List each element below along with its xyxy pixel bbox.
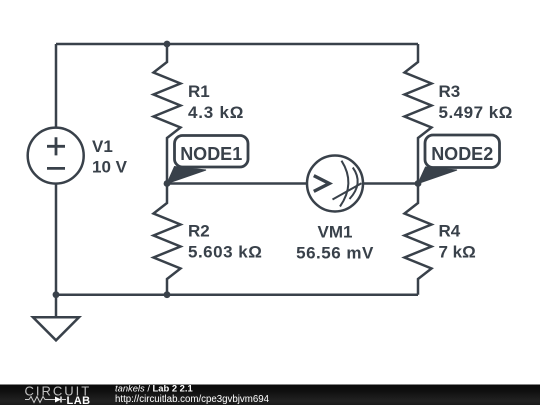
svg-text:56.56 mV: 56.56 mV (296, 244, 374, 263)
svg-text:R1: R1 (188, 82, 210, 101)
svg-text:5.603 kΩ: 5.603 kΩ (188, 243, 262, 262)
svg-text:R2: R2 (188, 222, 210, 241)
footer title text (115, 383, 270, 405)
svg-text:NODE2: NODE2 (431, 144, 493, 164)
wire top rail (56, 43, 418, 46)
svg-text:R3: R3 (439, 82, 461, 101)
resistor R2 (154, 184, 263, 295)
svg-text:7 kΩ: 7 kΩ (439, 243, 476, 262)
junction node A (NODE1) (164, 180, 171, 187)
junction bottom mid (164, 291, 171, 298)
svg-text:tankels / Lab 2 2.1: tankels / Lab 2 2.1 (115, 383, 193, 394)
svg-text:V1: V1 (92, 137, 113, 156)
junction node B (NODE2) (415, 180, 422, 187)
svg-text:R4: R4 (439, 222, 461, 241)
svg-text:NODE1: NODE1 (180, 144, 242, 164)
svg-text:VM1: VM1 (318, 223, 353, 242)
svg-text:10 V: 10 V (92, 158, 128, 177)
ground (33, 295, 79, 341)
resistor R1 (154, 44, 245, 184)
svg-text:http://circuitlab.com/cpe3gvbj: http://circuitlab.com/cpe3gvbjvm694 (115, 394, 270, 405)
voltage source V1 (28, 128, 128, 184)
footer bar (0, 385, 540, 405)
wire bottom rail (56, 293, 418, 296)
wire middle rail (167, 182, 418, 185)
wire left rail (55, 44, 58, 295)
voltmeter VM1 (296, 156, 374, 263)
CircuitLab logo wordmark (25, 383, 92, 405)
junction bottom left (53, 291, 60, 298)
node NODE1 flag (167, 136, 248, 184)
junction dot top (164, 41, 171, 48)
resistor R3 (405, 44, 513, 184)
resistor R4 (405, 184, 476, 295)
svg-text:4.3 kΩ: 4.3 kΩ (188, 103, 244, 122)
svg-text:LAB: LAB (67, 395, 91, 405)
node NODE2 flag (418, 135, 500, 184)
svg-text:5.497 kΩ: 5.497 kΩ (439, 103, 513, 122)
